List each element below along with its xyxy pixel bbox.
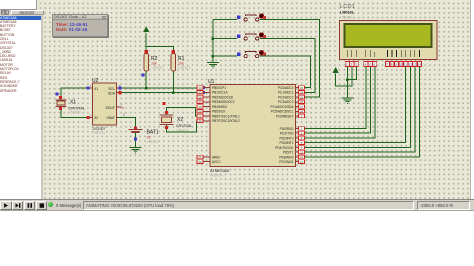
left panel: header row xyxy=(0,10,44,16)
svg-text:2: 2 xyxy=(90,113,92,117)
svg-text:X1: X1 xyxy=(70,100,76,106)
wire LCD D6 to U1 PD5 xyxy=(302,67,415,153)
svg-text:SDA: SDA xyxy=(108,92,116,96)
wire X2 top to U1 PB6 xyxy=(167,108,204,116)
wire X2 bottom to U1 PB7 xyxy=(167,121,204,132)
svg-text:PC1/ADC1: PC1/ADC1 xyxy=(278,91,294,95)
wire R2 top to R1 top rail xyxy=(146,47,173,52)
wire LCD VSS to ground xyxy=(346,67,348,98)
svg-text:SCL: SCL xyxy=(108,87,115,91)
popup window DS1307 Clock - U2 xyxy=(52,14,108,37)
svg-text:PD5/T1: PD5/T1 xyxy=(283,151,294,155)
ground (buttons) xyxy=(207,63,219,68)
svg-text:PC4/ADC4/SDA: PC4/ADC4/SDA xyxy=(270,105,294,109)
ground (LCD VSS) xyxy=(341,98,353,103)
message icon xyxy=(48,202,53,207)
U1 left pin number boxes xyxy=(197,86,203,164)
button SW3 xyxy=(237,50,266,57)
junction dot VSS/VEE xyxy=(346,78,349,81)
svg-text:PD1/TXD: PD1/TXD xyxy=(280,132,294,136)
svg-text:PB3/MOSI/OC2: PB3/MOSI/OC2 xyxy=(212,100,235,104)
button SW1 xyxy=(237,14,266,21)
wire SCL net U2 to U1 xyxy=(117,87,204,89)
wire U2.VBAT to BAT1 xyxy=(117,117,136,129)
svg-text:<TEXT>: <TEXT> xyxy=(93,131,106,135)
svg-text:PC5/ADC5/SCL: PC5/ADC5/SCL xyxy=(271,110,294,114)
svg-text:x: x xyxy=(122,105,124,110)
svg-text:X2: X2 xyxy=(177,117,183,123)
wire LCD RW to U1 PD1 xyxy=(302,67,370,134)
wire crystal X1 bottom to U2.X2 xyxy=(61,107,93,118)
wire button3 to PC0 xyxy=(260,56,311,87)
svg-text:12: 12 xyxy=(409,63,413,67)
stop button xyxy=(36,201,48,210)
junction dot buttons rail mid xyxy=(212,37,215,40)
pause button xyxy=(24,201,36,210)
svg-text:<TEXT>: <TEXT> xyxy=(210,174,223,178)
wire button2 to PC1 xyxy=(260,39,316,93)
svg-text:3V: 3V xyxy=(147,136,152,140)
svg-text:<TEXT>: <TEXT> xyxy=(340,16,353,20)
wire SDA net U2 to U1 xyxy=(117,92,204,94)
svg-text:X1: X1 xyxy=(94,87,98,91)
power arrow VCC (resistors) xyxy=(143,27,149,32)
U1 name label xyxy=(210,168,230,178)
svg-text:11: 11 xyxy=(404,63,407,67)
svg-text:LM016L: LM016L xyxy=(340,11,355,15)
junction dot R2/SCL xyxy=(145,87,148,90)
svg-text:PD6/AIN0: PD6/AIN0 xyxy=(279,155,293,159)
wire LCD D4 to U1 PD3 xyxy=(302,67,406,143)
svg-text:PC2/ADC2: PC2/ADC2 xyxy=(278,95,294,99)
step button xyxy=(12,201,24,210)
junction dot R1/SDA xyxy=(172,92,175,95)
IC U1 ATMEGA8 xyxy=(204,79,303,167)
wire LCD E to U1 PD2 xyxy=(302,67,375,138)
svg-text:PC6/RESET: PC6/RESET xyxy=(276,114,294,118)
svg-text:PB6/TOSC1/XTAL1: PB6/TOSC1/XTAL1 xyxy=(212,114,240,118)
right pin stubs xyxy=(296,88,303,162)
wire LCD VEE to VSS net xyxy=(347,67,356,80)
left panel: device list xyxy=(0,16,43,200)
svg-text:PC3/ADC3: PC3/ADC3 xyxy=(278,100,294,104)
power arrow VDD (LCD) xyxy=(332,67,339,86)
LCD1 screen xyxy=(345,24,432,47)
svg-text:CRYSTAL: CRYSTAL xyxy=(176,124,192,128)
svg-text:13: 13 xyxy=(413,63,417,67)
schematic canvas background xyxy=(37,0,471,199)
IC U2 DS1307 xyxy=(87,78,126,135)
svg-text:PB0/ICP1: PB0/ICP1 xyxy=(212,86,226,90)
svg-text:PC0/ADC0: PC0/ADC0 xyxy=(278,86,294,90)
schematic drawing xyxy=(0,0,474,199)
crystal X2 xyxy=(160,102,193,132)
junction square below R2 (blue) xyxy=(141,74,144,77)
wire button1 row xyxy=(213,19,237,21)
wire U2.X1 to crystal X1 top xyxy=(61,88,93,100)
wire button1 to PC2 xyxy=(260,20,320,98)
LCD1 pin labels (rotated ticks) xyxy=(347,50,419,57)
svg-text:10: 10 xyxy=(400,63,404,67)
svg-text:PD2/INT0: PD2/INT0 xyxy=(280,136,294,140)
svg-text:PD0/RXD: PD0/RXD xyxy=(280,127,295,131)
svg-text:14: 14 xyxy=(418,63,422,67)
coords xyxy=(417,201,470,210)
svg-text:PB7/TOSC2/XTAL2: PB7/TOSC2/XTAL2 xyxy=(212,119,240,123)
junction dot buttons rail low xyxy=(212,55,215,58)
svg-text:LCD1: LCD1 xyxy=(340,4,355,10)
svg-text:PB4/MISO: PB4/MISO xyxy=(212,105,228,109)
button SW2 xyxy=(237,33,266,40)
wire LCD VDD to power arrow xyxy=(336,67,352,86)
node SDA end marker xyxy=(202,91,205,94)
crystal X1 xyxy=(56,93,85,115)
wire BAT1 minus to ground xyxy=(135,132,137,147)
wire R1 bottom to SDA line xyxy=(172,71,174,93)
wire button2 row xyxy=(213,38,237,40)
svg-text:PD4/T0/XCK: PD4/T0/XCK xyxy=(275,146,294,150)
left panel: preview pane xyxy=(0,0,37,10)
wire LCD D7 to U1 PD6 xyxy=(302,67,419,157)
U1 right pin number boxes xyxy=(299,86,305,164)
wire buttons common rail xyxy=(212,20,214,63)
wire R2 bottom to SCL line xyxy=(145,71,147,89)
wire VCC arrow to R2 top xyxy=(145,33,147,52)
ground (BAT1) xyxy=(130,148,142,153)
svg-text:AREF: AREF xyxy=(212,155,221,159)
LCD1 body xyxy=(340,21,438,60)
LCD1 labels xyxy=(340,4,355,19)
svg-text:3: 3 xyxy=(123,113,125,117)
wire LCD D5 to U1 PD4 xyxy=(302,67,410,148)
svg-text:PB1/OC1A: PB1/OC1A xyxy=(212,91,228,95)
svg-text:VBAT: VBAT xyxy=(106,116,115,120)
resistor R2 xyxy=(144,50,164,71)
left pin stubs xyxy=(204,88,211,162)
play button xyxy=(0,201,12,210)
battery BAT1 xyxy=(129,127,160,144)
svg-text:AVCC: AVCC xyxy=(212,160,221,164)
svg-text:PB2/SS/OC1B: PB2/SS/OC1B xyxy=(212,95,233,99)
node SCL end marker xyxy=(202,86,205,89)
svg-text:PB5/SCK: PB5/SCK xyxy=(212,110,226,114)
svg-text:<TEXT>: <TEXT> xyxy=(176,129,189,133)
svg-text:PD3/INT1: PD3/INT1 xyxy=(280,141,294,145)
svg-text:SOUT: SOUT xyxy=(106,106,115,110)
bottom status bar xyxy=(0,199,474,211)
svg-text:<TEXT>: <TEXT> xyxy=(178,66,191,70)
wire LCD RS to U1 PD0 xyxy=(302,67,366,129)
svg-text:X2: X2 xyxy=(94,116,98,120)
svg-text:<TEXT>: <TEXT> xyxy=(69,111,82,115)
wire button3 row xyxy=(213,55,237,57)
svg-text:<TEXT>: <TEXT> xyxy=(147,140,160,144)
pin end markers U2 xyxy=(87,86,90,89)
svg-text:ATMEGA8: ATMEGA8 xyxy=(210,168,230,173)
svg-text:1: 1 xyxy=(90,84,92,88)
animating box xyxy=(83,201,414,210)
svg-text:<TEXT>: <TEXT> xyxy=(151,66,164,70)
resistor R1 xyxy=(171,50,191,71)
LCD1 pin pads xyxy=(345,62,421,67)
svg-text:PD7/AIN1: PD7/AIN1 xyxy=(279,160,293,164)
